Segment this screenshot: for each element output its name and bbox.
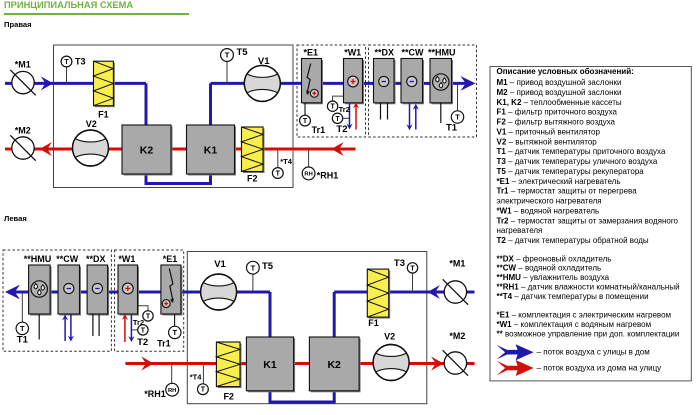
svg-text:K2: K2 <box>140 145 154 157</box>
svg-text:**DX: **DX <box>374 47 394 57</box>
svg-text:F1: F1 <box>368 318 379 328</box>
svg-text:T1: T1 <box>17 335 29 346</box>
svg-text:K1: K1 <box>204 145 218 157</box>
svg-text:*M1: *M1 <box>15 60 31 70</box>
svg-text:**T4 – датчик температуры в по: **T4 – датчик температуры в помещении <box>497 292 649 301</box>
svg-text:F2: F2 <box>223 391 234 401</box>
svg-text:T5: T5 <box>262 261 274 272</box>
svg-text:*W1: *W1 <box>118 254 135 264</box>
svg-text:K2: K2 <box>327 359 341 371</box>
svg-text:*E1: *E1 <box>304 47 319 57</box>
svg-text:F1: F1 <box>98 110 109 120</box>
svg-text:T: T <box>303 118 308 125</box>
svg-text:**CW – водяной охладитель: **CW – водяной охладитель <box>497 264 602 273</box>
svg-text:T: T <box>330 104 335 111</box>
svg-text:V2: V2 <box>86 119 97 129</box>
svg-text:T: T <box>64 59 69 66</box>
svg-text:M1 – привод воздушной заслонки: M1 – привод воздушной заслонки <box>497 78 622 87</box>
svg-text:**HMU – увлажнитель воздуха: **HMU – увлажнитель воздуха <box>497 273 610 282</box>
svg-text:RH: RH <box>304 171 312 177</box>
svg-text:T2: T2 <box>137 337 148 348</box>
svg-text:T: T <box>173 328 178 337</box>
svg-text:F2 – фильтр вытяжного воздуха: F2 – фильтр вытяжного воздуха <box>497 118 616 127</box>
svg-text:K1: K1 <box>263 359 277 371</box>
svg-text:Tr1 – термостат защиты от пере: Tr1 – термостат защиты от перегрева <box>497 187 638 196</box>
svg-text:V2: V2 <box>384 331 395 341</box>
svg-text:F1 – фильтр приточного воздуха: F1 – фильтр приточного воздуха <box>497 108 618 117</box>
svg-text:T: T <box>410 265 415 272</box>
svg-text:F2: F2 <box>247 174 258 184</box>
svg-text:T: T <box>455 113 460 122</box>
svg-text:T: T <box>20 324 25 333</box>
svg-text:**HMU: **HMU <box>428 47 456 57</box>
svg-text:нагревателя: нагревателя <box>497 226 543 235</box>
svg-text:** возможное управление при до: ** возможное управление при доп. комплек… <box>497 329 680 338</box>
svg-text:*T4: *T4 <box>190 373 203 382</box>
svg-text:T5: T5 <box>237 47 249 58</box>
svg-text:*M2: *M2 <box>15 126 31 136</box>
svg-text:– поток воздуха с улицы в дом: – поток воздуха с улицы в дом <box>537 347 650 356</box>
svg-text:*M1: *M1 <box>449 259 465 269</box>
svg-text:электрического нагревателя: электрического нагревателя <box>497 197 602 206</box>
svg-text:T1 – датчик температуры приточ: T1 – датчик температуры приточного возду… <box>497 147 666 156</box>
svg-text:T3: T3 <box>394 258 405 269</box>
svg-text:T: T <box>146 313 151 320</box>
svg-text:**DX – фреоновый охладитель: **DX – фреоновый охладитель <box>497 254 612 263</box>
svg-text:V1: V1 <box>258 56 270 67</box>
svg-text:RH: RH <box>168 388 176 394</box>
svg-text:T2 – датчик температуры обрат: T2 – датчик температуры обратной воды <box>497 236 649 245</box>
svg-text:V2 – вытяжной вентилятор: V2 – вытяжной вентилятор <box>497 137 598 146</box>
svg-text:*W1: *W1 <box>344 47 361 57</box>
svg-text:Описание условных обозначений:: Описание условных обозначений: <box>497 67 634 76</box>
svg-text:V1 – приточный вентилятор: V1 – приточный вентилятор <box>497 127 601 136</box>
svg-text:T1: T1 <box>446 122 458 133</box>
svg-text:**CW: **CW <box>56 254 79 264</box>
svg-text:**DX: **DX <box>86 254 106 264</box>
svg-text:Tr2: Tr2 <box>339 105 350 114</box>
svg-text:V1: V1 <box>214 259 226 270</box>
svg-text:**HMU: **HMU <box>24 254 52 264</box>
svg-text:*T4: *T4 <box>280 157 293 166</box>
svg-text:*E1 – комплектация с электриче: *E1 – комплектация с электрическим нагре… <box>497 311 672 320</box>
svg-text:Tr1: Tr1 <box>157 338 171 348</box>
svg-text:*M2: *M2 <box>449 331 465 341</box>
svg-text:**RH1 – датчик влажности комна: **RH1 – датчик влажности комнатный/канал… <box>497 283 680 292</box>
svg-text:T: T <box>141 327 146 334</box>
svg-text:T5 – датчик температуры рекупе: T5 – датчик температуры рекуператора <box>497 167 645 176</box>
svg-text:M2 – привод воздушной заслонки: M2 – привод воздушной заслонки <box>497 88 622 97</box>
svg-text:*E1 – электрический нагревател: *E1 – электрический нагреватель <box>497 177 621 186</box>
svg-text:**CW: **CW <box>402 47 425 57</box>
svg-text:T3: T3 <box>75 56 86 66</box>
svg-text:*RH1: *RH1 <box>317 171 339 181</box>
svg-text:T: T <box>225 51 230 60</box>
svg-text:T: T <box>335 116 340 123</box>
svg-text:T3 – датчик температуры улично: T3 – датчик температуры уличного воздуха <box>497 157 658 166</box>
svg-text:T: T <box>276 171 281 178</box>
svg-text:Tr1: Tr1 <box>312 125 326 135</box>
svg-text:Tr2 – термостат защиты от заме: Tr2 – термостат защиты от замерзания вод… <box>497 216 679 225</box>
svg-text:*W1 – водяной нагреватель: *W1 – водяной нагреватель <box>497 206 600 215</box>
svg-text:K1, K2 – теплообменные кассеты: K1, K2 – теплообменные кассеты <box>497 98 622 107</box>
svg-text:Tr2: Tr2 <box>133 318 144 327</box>
svg-text:*E1: *E1 <box>163 254 178 264</box>
svg-text:T: T <box>251 263 256 272</box>
svg-text:*RH1: *RH1 <box>144 389 166 399</box>
svg-text:T: T <box>201 387 206 394</box>
svg-text:– поток воздуха из дома на ул: – поток воздуха из дома на улицу <box>537 364 662 373</box>
svg-text:T2: T2 <box>336 124 347 135</box>
svg-text:*W1 – комплектация с водяным н: *W1 – комплектация с водяным нагревом <box>497 320 652 329</box>
